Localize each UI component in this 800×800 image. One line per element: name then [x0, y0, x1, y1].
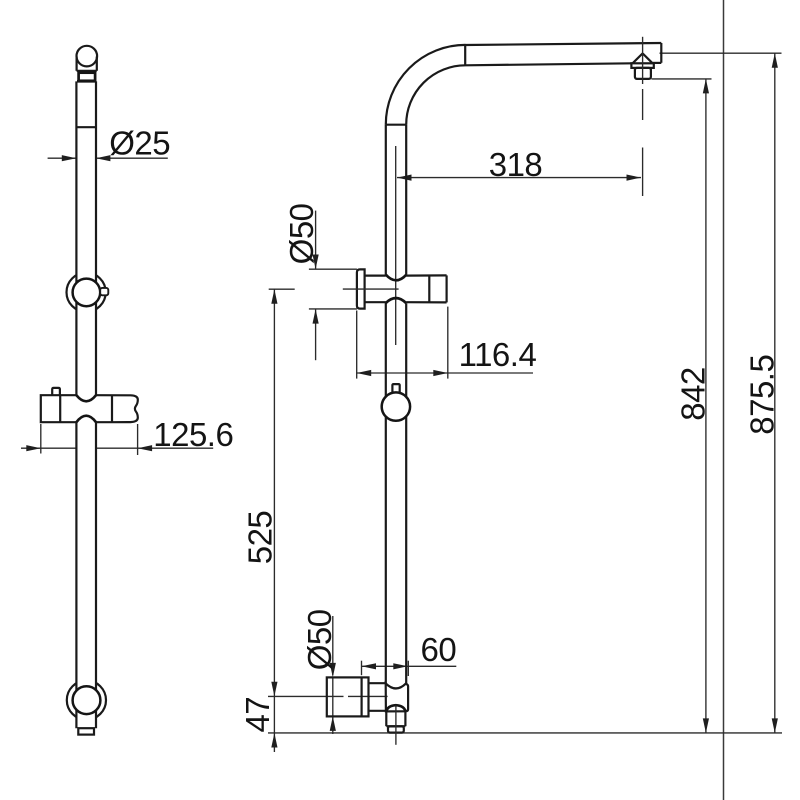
arm end block	[653, 43, 662, 63]
tee top saddle	[386, 275, 406, 281]
riser pipe left edge	[385, 125, 387, 684]
bottom datum extension line	[268, 732, 782, 734]
svg-text:842: 842	[675, 367, 712, 421]
left rail bottom ball outer	[67, 681, 106, 720]
riser bend outer arc	[386, 45, 466, 125]
left rail slider ring outer	[67, 273, 106, 312]
svg-text:875.5: 875.5	[743, 355, 780, 435]
tee end cap	[429, 275, 446, 302]
dimension Ø25	[48, 125, 171, 162]
tee arm top edge	[365, 274, 447, 276]
connector centerline	[642, 37, 644, 196]
tee arm bottom edge	[365, 301, 447, 303]
bottom ball inner	[73, 686, 101, 714]
holder top saddle	[76, 395, 96, 401]
slider ring tab	[100, 288, 108, 295]
slide rail body	[76, 81, 96, 728]
tee bottom saddle	[386, 298, 406, 303]
holder bottom saddle	[76, 416, 96, 423]
handset holder body	[42, 396, 138, 422]
svg-text:116.4: 116.4	[459, 336, 537, 373]
shower arm bottom edge	[466, 63, 633, 65]
riser bend inner arc	[406, 65, 465, 124]
slider ring inner	[73, 279, 101, 307]
rail joint line	[76, 126, 96, 128]
bend joint lines	[386, 45, 465, 125]
svg-text:Ø25: Ø25	[109, 125, 170, 162]
bottom elbow outlet	[386, 711, 405, 726]
ball joint	[382, 392, 410, 420]
tee left disc	[357, 269, 365, 308]
svg-text:Ø50: Ø50	[301, 609, 338, 670]
bottom elbow socket	[386, 683, 408, 711]
svg-text:60: 60	[421, 631, 457, 668]
svg-text:125.6: 125.6	[153, 416, 233, 453]
rail top ball	[77, 46, 98, 67]
tee centerline	[343, 288, 399, 290]
bottom elbow outlet arch	[386, 705, 405, 711]
dimension 318	[397, 146, 641, 183]
svg-text:318: 318	[489, 146, 543, 183]
svg-text:Ø50: Ø50	[283, 203, 320, 264]
holder button	[52, 388, 60, 395]
svg-text:47: 47	[239, 697, 276, 733]
dimension 842	[652, 79, 712, 733]
page frame line	[723, 0, 725, 800]
riser pipe right edge	[405, 125, 407, 684]
dimension Ø50 lower	[301, 609, 338, 734]
shower arm top edge	[466, 43, 662, 45]
bottom elbow neck	[369, 683, 386, 711]
rail top cap	[77, 57, 97, 71]
ball joint tab	[392, 384, 399, 393]
head connector cone	[633, 53, 653, 63]
bottom elbow nut	[388, 726, 404, 732]
rail bottom cap	[78, 728, 94, 734]
dimension Ø50 upper	[283, 203, 357, 360]
bottom elbow centerline vertical	[395, 705, 397, 744]
dimension 875.5	[660, 53, 782, 733]
dimension 125.6	[21, 416, 233, 455]
elbow centerline horizontal	[268, 695, 388, 697]
dimension 47	[239, 696, 278, 752]
riser pipe inner line	[395, 146, 397, 345]
rail top collar	[77, 73, 96, 82]
dimension 116.4	[357, 307, 537, 379]
holder inner joints	[60, 395, 112, 422]
bottom elbow body	[327, 677, 369, 716]
svg-text:525: 525	[242, 511, 279, 565]
dimension 525	[242, 289, 295, 696]
dimension 60	[362, 631, 457, 676]
head connector nut	[635, 68, 651, 79]
head connector collar	[631, 63, 653, 68]
